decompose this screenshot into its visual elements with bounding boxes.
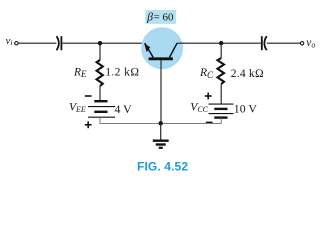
svg-text:1.2 kΩ: 1.2 kΩ	[105, 65, 139, 78]
polarity minus of VCC	[206, 121, 213, 123]
svg-text:β: β	[146, 12, 153, 24]
wire: RC to VCC battery	[220, 84, 222, 104]
svg-text:RE: RE	[73, 66, 87, 79]
node: collector junction dot	[219, 41, 223, 45]
svg-text:4 V: 4 V	[115, 102, 133, 116]
beta label box	[145, 10, 176, 24]
wire: transistor base down to ground bus	[160, 60, 162, 123]
polarity plus of VEE	[85, 121, 92, 128]
svg-text:2.4 kΩ: 2.4 kΩ	[231, 67, 264, 80]
wire: VCC to ground bus	[161, 118, 222, 124]
svg-text:RC: RC	[199, 67, 214, 80]
wire: collector node to output capacitor	[221, 42, 261, 44]
wire: emitter node down to RE	[99, 43, 101, 60]
polarity plus of VCC	[205, 93, 212, 100]
terminal vi	[6, 35, 19, 47]
wire: input capacitor to emitter node	[62, 42, 145, 44]
transistor Q1	[141, 27, 183, 69]
svg-text:= 60: = 60	[154, 11, 174, 23]
battery VEE	[88, 101, 115, 117]
capacitor C2 (output coupling)	[262, 36, 267, 50]
node: ground junction dot	[159, 121, 163, 125]
wire: collector to collector node	[177, 42, 221, 44]
resistor RE	[97, 60, 103, 86]
wire: VEE to ground bus	[100, 117, 161, 123]
wire: vi terminal to input capacitor	[18, 42, 56, 44]
capacitor C1 (input coupling)	[56, 36, 61, 50]
terminal vo	[300, 37, 315, 50]
wire: RE to VEE battery	[99, 86, 101, 101]
polarity minus of VEE	[85, 95, 92, 97]
resistor RC	[218, 58, 225, 84]
ground	[153, 123, 169, 148]
wire: collector node down to RC	[220, 43, 222, 58]
svg-text:FIG. 4.52: FIG. 4.52	[137, 160, 188, 174]
wire: output capacitor to vo terminal	[267, 42, 300, 44]
svg-text:10 V: 10 V	[234, 101, 258, 115]
battery VCC	[209, 104, 234, 118]
node: emitter junction dot	[98, 41, 102, 45]
